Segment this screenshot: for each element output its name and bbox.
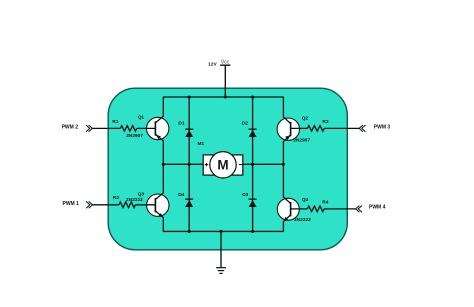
resistor R3 [307,126,324,132]
wire top rail [163,96,284,98]
resistor R1 [120,126,137,132]
base wires [92,128,359,209]
Q1 emitter [156,134,164,164]
svg-text:2N2907: 2N2907 [293,138,310,144]
Q2 collector [283,97,290,123]
PCB body (teal rounded rectangle) [108,88,347,250]
labels [112,62,328,224]
wire R3 to PWM3 [324,127,359,129]
wire R2 to Q3 base [135,204,155,206]
resistor R2 [119,202,135,208]
Q4 emitter [283,215,290,231]
node mid right [282,163,285,166]
svg-text:PWM 3: PWM 3 [374,124,391,130]
wire Q2 base to R3 [291,127,308,129]
svg-text:Vcc: Vcc [221,59,230,65]
node bottom ground [219,230,222,233]
Q3 emitter [156,211,164,231]
Q4 base bar [290,202,292,216]
svg-text:D3: D3 [242,192,248,198]
node mid D1 [188,163,191,166]
wire middle rail [163,163,284,165]
wire D2 branch [252,97,254,164]
svg-text:2N2222: 2N2222 [294,217,311,223]
node mid D2 [251,163,254,166]
svg-text:R4: R4 [322,200,328,206]
transistor Q3 body [147,194,169,216]
svg-text:Q4: Q4 [302,197,309,203]
node bottom D3 [251,230,254,233]
Q3 collector [156,164,164,199]
node top Vcc [224,95,227,98]
svg-text:D1: D1 [178,120,184,126]
node bottom D4 [188,230,191,233]
transistor Q2 body [277,118,299,140]
Q2 base bar [290,122,292,136]
transistor Q1 body [147,117,169,139]
wire Q4 base to R4 [291,208,308,210]
svg-text:2N2222: 2N2222 [126,197,143,203]
port PWM 2 [86,125,92,132]
Q2 emitter arrow (PNP, points to bar) [285,135,290,140]
svg-text:M: M [217,158,228,173]
svg-text:R2: R2 [113,195,119,201]
Q3 emitter arrow (NPN, points out) [158,213,163,218]
node mid left [162,163,165,166]
svg-text:PWM 2: PWM 2 [62,124,79,130]
junction dots [162,95,285,233]
svg-text:Q2: Q2 [302,115,309,121]
Q4 emitter arrow (NPN, points out) [283,217,288,222]
svg-text:Q3: Q3 [138,192,145,198]
diode D3 [249,199,257,207]
svg-text:M1: M1 [198,141,205,147]
Q1 emitter arrow (PNP, points to bar) [156,135,161,140]
Q3 base bar [154,198,156,212]
Vcc bar [220,64,230,66]
wire D1 branch [188,97,190,164]
transistor Q4 body [277,198,299,220]
wire D4 branch [188,164,190,231]
wire PWM2 to R1 [92,127,120,129]
svg-text:D2: D2 [242,120,248,126]
wire R4 to PWM4 [324,208,355,210]
wire D3 branch [252,164,254,231]
svg-text:12V: 12V [208,62,217,68]
port PWM 1 [86,201,92,208]
wire R1 to Q1 base [137,127,156,129]
port PWM 4 [356,206,362,213]
Q4 collector [283,164,290,203]
svg-text:R3: R3 [322,119,328,125]
diode D1 [185,129,193,137]
wire ground drop [220,231,222,267]
wire bottom rail [163,230,284,232]
motor M1 [203,152,243,178]
port PWM 3 [359,125,365,132]
Q2 emitter [283,135,290,164]
diode D2 [249,129,257,137]
node top D2 [251,95,254,98]
diode D4 [185,199,193,207]
node top D1 [188,95,191,98]
Q1 base bar [154,121,156,135]
ground [216,268,226,274]
Q1 collector [156,97,164,123]
Vcc supply wire [224,65,226,97]
svg-text:PWM 1: PWM 1 [63,201,80,207]
svg-text:R1: R1 [112,119,118,125]
svg-text:Q1: Q1 [138,115,145,121]
wire PWM1 to R2 [92,204,119,206]
resistor R4 [307,206,324,212]
svg-text:D4: D4 [178,192,184,198]
svg-text:2N2907: 2N2907 [126,133,143,139]
svg-text:PWM 4: PWM 4 [369,205,386,211]
